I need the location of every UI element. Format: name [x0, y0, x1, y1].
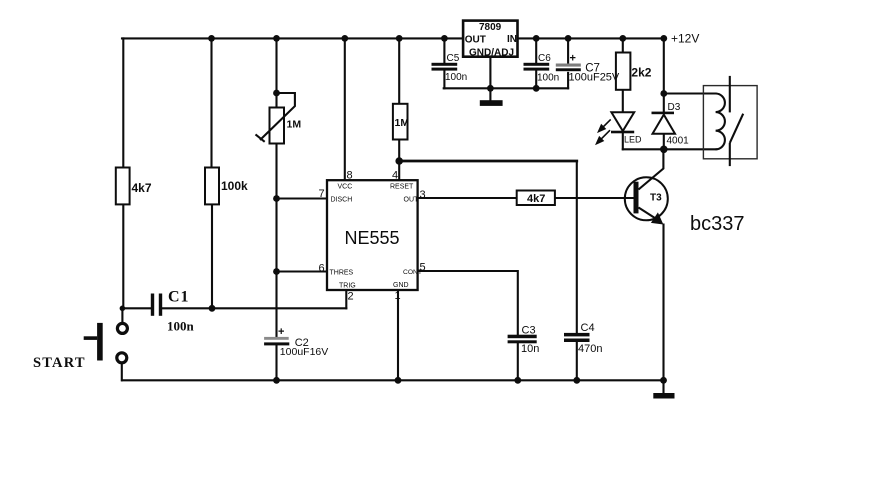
wire D3 bottom	[663, 134, 665, 150]
svg-text:3: 3	[420, 189, 426, 201]
wire 100k bottom to TRIG wire	[211, 204, 213, 308]
svg-text:+12V: +12V	[671, 31, 699, 45]
wire ground stub bottom right	[662, 380, 664, 393]
svg-text:C1: C1	[168, 289, 190, 306]
wire C1 right plate to TRIG	[162, 307, 346, 309]
LED D1 cathode bar	[611, 131, 634, 134]
LED D1 emission arrows	[597, 119, 611, 143]
transistor T3 collector	[639, 149, 664, 189]
capacitor C6 plates	[524, 63, 550, 71]
wire R1 bottom to C1 node	[122, 204, 124, 308]
regulator U1 7809 body	[463, 21, 517, 59]
svg-text:100uF25V: 100uF25V	[569, 71, 620, 83]
pushbutton START actuator bar	[97, 323, 103, 361]
wire 1M top	[398, 38, 400, 103]
svg-text:470n: 470n	[578, 343, 602, 355]
relay K1 switch top contact	[729, 76, 731, 113]
node dot D3 coil branch	[660, 90, 667, 97]
node dot rail C7	[565, 35, 572, 42]
svg-text:C3: C3	[522, 325, 536, 337]
transistor T3 circle	[625, 177, 668, 220]
svg-text:C6: C6	[538, 53, 551, 64]
svg-text:4001: 4001	[667, 136, 690, 147]
capacitor C5 plates	[432, 63, 458, 71]
pushbutton START stem	[84, 336, 97, 340]
svg-text:DISCH: DISCH	[331, 197, 353, 204]
svg-text:C4: C4	[581, 322, 595, 334]
ground symbol regulator	[480, 100, 503, 106]
node dot DISCH junction	[273, 195, 280, 202]
wire 1M bottom / RESET pin 4	[398, 140, 400, 181]
transistor T3 base bar	[634, 182, 639, 214]
node dot C1 left	[120, 306, 126, 312]
svg-text:C5: C5	[447, 53, 460, 64]
node dot ground rail pin1	[395, 377, 402, 384]
svg-text:7809: 7809	[479, 22, 502, 33]
svg-text:TRIG: TRIG	[339, 283, 356, 290]
svg-text:VCC: VCC	[338, 184, 353, 191]
diode D3 cathode bar	[652, 112, 675, 115]
wire top rail right section	[518, 37, 665, 39]
wire TRIG pin 2 stub	[345, 290, 347, 308]
capacitor C1 plates	[151, 294, 162, 316]
svg-text:100n: 100n	[167, 319, 195, 334]
wire C6 top	[535, 38, 537, 62]
svg-text:4k7: 4k7	[527, 193, 545, 205]
wire 7809 gnd stub	[489, 57, 491, 100]
svg-text:1M: 1M	[395, 117, 410, 129]
relay K1 switch bottom contact	[729, 143, 731, 166]
node dot C1 100k junction	[209, 305, 216, 312]
node dot rail 100k	[208, 35, 215, 42]
wire GND pin 1	[397, 290, 399, 380]
node dot rail 1M	[396, 35, 403, 42]
wire 2k2 to LED	[622, 90, 624, 113]
svg-text:GND/ADJ: GND/ADJ	[469, 48, 514, 59]
node dot ground rail emitter	[660, 377, 667, 384]
potentiometer P1 wiper arm	[256, 93, 295, 142]
svg-text:THRES: THRES	[330, 270, 354, 277]
wire C7 top	[567, 38, 569, 63]
wire regulator ground rail	[444, 87, 568, 89]
transistor T3 emitter	[639, 208, 659, 221]
node dot THRES junction	[273, 268, 280, 275]
wire C4 vertical	[576, 161, 578, 333]
svg-text:+: +	[278, 326, 284, 338]
IC U2 NE555 body	[327, 180, 418, 290]
relay K1 box	[703, 86, 757, 159]
wire LED D3 collector rail	[623, 148, 716, 150]
wire C1 node to C1 left plate	[122, 307, 150, 309]
node dot rail pin8	[341, 35, 348, 42]
wire bottom ground rail	[122, 379, 664, 381]
svg-text:2: 2	[348, 291, 354, 303]
resistor R2 100k	[205, 168, 248, 205]
svg-text:7: 7	[319, 188, 325, 200]
wire left vertical from rail to R1	[122, 38, 124, 167]
svg-text:IN: IN	[507, 34, 517, 45]
wire top rail left section	[122, 37, 463, 39]
wire C2 bottom	[275, 345, 277, 380]
resistor R1 4k7	[116, 168, 152, 205]
svg-text:6: 6	[319, 263, 325, 275]
node dot gnd rail GND pin	[487, 85, 494, 92]
svg-text:100uF16V: 100uF16V	[280, 346, 328, 358]
node dot rail 2k2	[619, 35, 626, 42]
wire C4 bottom	[576, 342, 578, 380]
svg-text:1M: 1M	[287, 119, 302, 131]
pushbutton START bottom contact	[117, 353, 127, 363]
wire C5 top	[443, 38, 445, 62]
diode D3 triangle	[653, 115, 676, 134]
svg-text:4: 4	[392, 170, 398, 182]
svg-text:LED: LED	[624, 135, 642, 145]
node dot ground rail C2	[273, 377, 280, 384]
svg-text:1: 1	[395, 290, 401, 302]
svg-text:2k2: 2k2	[631, 66, 651, 80]
wire OUT pin 3	[418, 197, 517, 199]
wire C3 bottom	[517, 343, 519, 380]
svg-text:T3: T3	[650, 193, 662, 204]
node dot gnd rail C6	[533, 85, 540, 92]
relay K1 switch blade	[730, 114, 743, 143]
svg-text:D3: D3	[668, 102, 681, 113]
svg-text:bc337: bc337	[690, 213, 745, 235]
svg-text:100n: 100n	[445, 72, 467, 83]
wire LED bottom	[622, 133, 624, 150]
capacitor C4 plates	[564, 333, 590, 342]
wire C6 bottom	[535, 71, 537, 89]
svg-text:OUT: OUT	[404, 197, 420, 204]
wire D3 top vertical	[663, 38, 665, 111]
node dot rail end 12V	[660, 35, 667, 42]
svg-text:START: START	[33, 355, 86, 371]
node dot rail C5	[441, 35, 448, 42]
svg-text:100n: 100n	[537, 73, 559, 84]
svg-text:GND: GND	[393, 282, 409, 289]
svg-text:CONT: CONT	[403, 269, 422, 276]
svg-text:100k: 100k	[221, 179, 248, 193]
ground symbol bottom right	[653, 393, 674, 399]
svg-text:4k7: 4k7	[132, 181, 152, 195]
resistor R6 4k7 base resistor	[517, 191, 555, 206]
wire CONT pin 5 to C3	[418, 271, 518, 335]
wire R6 4k7 to transistor base	[555, 197, 634, 199]
relay K1 coil	[716, 94, 725, 150]
svg-text:8: 8	[347, 170, 353, 182]
capacitor C2 electrolytic plates	[264, 337, 289, 346]
wire pot bottom vertical to C2	[275, 144, 277, 337]
svg-text:NE555: NE555	[345, 228, 400, 248]
svg-text:RESET: RESET	[390, 184, 414, 191]
wire pot top	[275, 38, 277, 107]
node dot collector rail	[660, 146, 668, 154]
wire relay coil top feed	[664, 92, 716, 94]
wire RESET node horizontal	[399, 160, 577, 163]
pushbutton START top contact	[117, 323, 127, 333]
resistor R4 2k2	[616, 53, 652, 90]
node dot rail pot	[273, 35, 280, 42]
svg-text:+: +	[570, 53, 576, 65]
wire 100k top	[210, 38, 212, 167]
LED D1 triangle	[611, 112, 634, 131]
wire 2k2 top	[622, 38, 624, 52]
svg-text:10n: 10n	[521, 343, 539, 355]
node dot pot wiper	[273, 90, 280, 97]
resistor R3 1M	[393, 104, 409, 140]
node dot RESET junction	[395, 157, 403, 165]
node dot ground rail C4	[573, 377, 580, 384]
wire emitter vertical to ground rail	[662, 225, 664, 381]
potentiometer P1 1M body	[270, 108, 302, 144]
wire THRES pin 6	[277, 270, 328, 272]
transistor T3 emitter arrow	[651, 212, 664, 224]
capacitor C3 plates	[508, 335, 537, 344]
wire C5 bottom	[443, 71, 445, 89]
capacitor C7 electrolytic plates	[556, 64, 581, 72]
wire switch bottom stub	[121, 364, 123, 380]
node dot rail C6	[533, 35, 540, 42]
svg-text:OUT: OUT	[465, 34, 486, 45]
wire DISCH pin 7	[277, 197, 328, 199]
node dot ground rail C3	[514, 377, 521, 384]
wire C7 bottom	[567, 73, 569, 88]
wire VCC pin 8	[344, 38, 346, 180]
wire switch top stub	[121, 308, 123, 322]
